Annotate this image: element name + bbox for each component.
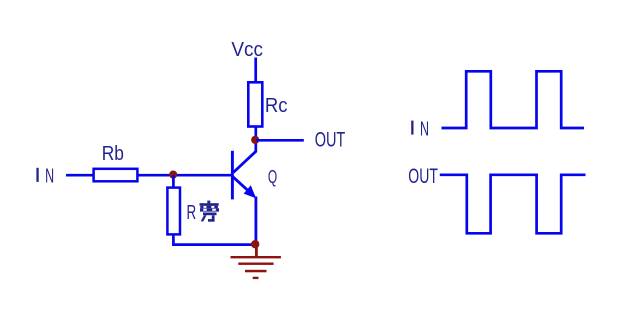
node collector junction: [251, 136, 259, 144]
node emitter-ground junction: [251, 240, 259, 248]
waveform OUT: [440, 175, 586, 234]
transistor Q base bar: [231, 151, 234, 200]
wire input to Rb: [66, 174, 93, 177]
wire Rb to base: [139, 174, 232, 177]
svg-text:N: N: [420, 118, 429, 140]
wire R pang bottom to ground rail: [173, 234, 254, 244]
wire junction down to R pang: [172, 175, 175, 187]
wire Vcc to Rc: [254, 58, 257, 83]
transistor Q collector stroke: [233, 151, 256, 173]
node base junction: [169, 171, 177, 179]
label IN (schematic input): [36, 166, 54, 188]
resistor Rb: [94, 169, 138, 182]
resistor Rc: [248, 82, 262, 126]
svg-text:Rc: Rc: [265, 95, 288, 117]
wire OUT: [256, 139, 304, 142]
svg-text:N: N: [45, 166, 54, 188]
waveform IN: [442, 71, 585, 128]
label R pang (R + hand-drawn CJK glyph): [187, 201, 220, 224]
svg-text:OUT: OUT: [315, 129, 346, 152]
ground: [231, 244, 281, 279]
wire Rc to collector: [254, 128, 257, 152]
svg-text:Q: Q: [268, 166, 277, 187]
svg-text:R: R: [187, 202, 197, 224]
label IN (waveform): [411, 118, 429, 140]
svg-text:OUT: OUT: [408, 165, 438, 188]
resistor R pang: [167, 188, 180, 235]
svg-text:Vcc: Vcc: [231, 39, 263, 61]
transistor Q emitter arrowhead: [244, 185, 256, 198]
wire emitter down: [254, 197, 257, 247]
svg-text:Rb: Rb: [102, 143, 124, 165]
transistor Q emitter stroke: [233, 177, 254, 196]
